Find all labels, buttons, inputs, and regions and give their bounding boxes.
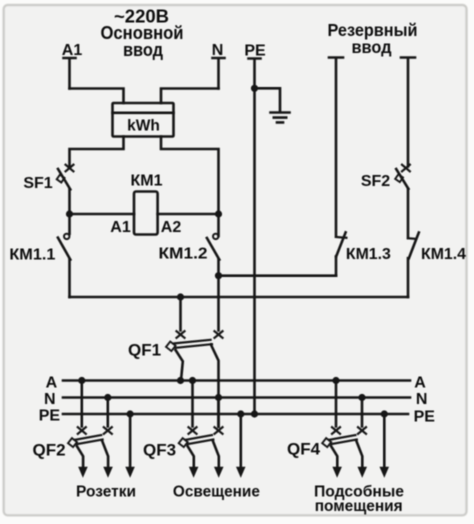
breaker QF4 linkage and blades <box>322 435 362 467</box>
node A bus QF1 <box>177 377 184 384</box>
svg-text:А: А <box>414 375 426 392</box>
svg-text:QF2: QF2 <box>32 441 65 460</box>
breaker QF3 linkage and blades <box>179 435 219 467</box>
svg-text:ввод: ввод <box>352 37 392 57</box>
svg-text:N: N <box>212 42 224 59</box>
breaker QF1 pole N <box>215 276 223 338</box>
svg-text:КМ1.1: КМ1.1 <box>9 247 55 264</box>
node N bus QF4 <box>358 394 365 401</box>
contactor coil KM1 <box>134 192 158 235</box>
wire coil A2 <box>158 213 219 216</box>
switch SF1 <box>57 165 74 214</box>
svg-text:РЕ: РЕ <box>414 409 436 426</box>
terminal PE <box>249 59 261 415</box>
node PE bus tap lighting <box>237 410 244 417</box>
svg-text:SF2: SF2 <box>361 173 390 190</box>
arrow load N <box>214 467 224 478</box>
node A bus QF3 <box>189 377 196 384</box>
node PE ground tap <box>251 85 258 92</box>
breaker QF3 group with load arrows <box>179 377 246 478</box>
svg-text:КМ1.4: КМ1.4 <box>421 246 466 263</box>
wire phase bus KM1.1 to KM1.4 <box>70 296 409 299</box>
breaker QF3 pole L <box>189 381 197 434</box>
node coil A1 tap <box>66 210 73 217</box>
wire to ground electrode <box>255 88 281 111</box>
arrow load L <box>189 467 199 478</box>
svg-text:помещения: помещения <box>315 498 403 515</box>
node coil A2 tap <box>215 210 222 217</box>
node A bus QF4 <box>332 377 339 384</box>
svg-text:N: N <box>44 391 56 408</box>
arrow load L <box>332 467 342 478</box>
wire PE to load <box>129 414 132 467</box>
svg-text:РЕ: РЕ <box>244 43 266 60</box>
breaker QF2 pole L <box>78 381 86 434</box>
svg-text:QF4: QF4 <box>287 440 321 459</box>
wire A1 to kWh input <box>70 89 124 104</box>
wire kWh output to N line <box>161 137 219 237</box>
breaker QF1 pole L <box>177 297 185 338</box>
svg-text:N: N <box>416 391 428 408</box>
terminal reserve L (backup input) <box>329 58 343 237</box>
wire PE to load <box>240 414 243 467</box>
contact KM1.2 <box>207 234 219 276</box>
node N bus QF1 <box>215 394 222 401</box>
contact KM1.3 <box>336 232 346 275</box>
node N link <box>215 272 222 279</box>
arrow load N <box>103 467 113 478</box>
arrow load PE <box>380 467 390 478</box>
terminal A1 (main input phase) <box>64 58 76 89</box>
terminal N (main input neutral) <box>213 58 225 89</box>
arrow load L <box>78 467 88 478</box>
svg-text:QF1: QF1 <box>128 341 161 360</box>
node PE bus main <box>251 410 258 417</box>
switch SF2 <box>395 165 410 238</box>
svg-text:РЕ: РЕ <box>39 408 61 425</box>
svg-text:kWh: kWh <box>127 118 160 135</box>
wire N link KM1.2 to KM1.3 <box>219 274 337 277</box>
svg-text:А: А <box>46 375 58 392</box>
svg-text:ввод: ввод <box>123 39 163 60</box>
breaker QF4 pole N <box>358 398 366 434</box>
svg-text:Розетки: Розетки <box>76 484 136 501</box>
svg-text:А1: А1 <box>62 42 83 59</box>
arrow load PE <box>236 467 246 478</box>
breaker QF4 group with load arrows <box>322 377 389 478</box>
terminal reserve N (backup input) <box>401 58 415 167</box>
svg-text:А2: А2 <box>161 219 182 236</box>
node PE bus tap utility <box>381 410 388 417</box>
arrow load N <box>358 467 368 478</box>
contact KM1.1 <box>58 214 70 297</box>
node N bus QF2 <box>104 394 111 401</box>
svg-text:А1: А1 <box>110 219 131 236</box>
bus A <box>63 379 410 382</box>
breaker QF1 linkage and blades <box>166 340 218 427</box>
breaker QF2 linkage and blades <box>68 435 108 467</box>
node A bus QF2 <box>78 377 85 384</box>
breaker QF4 pole L <box>332 381 340 434</box>
svg-text:КМ1: КМ1 <box>131 173 163 190</box>
wire coil A1 <box>70 213 135 216</box>
contact KM1.4 <box>408 233 419 298</box>
breaker QF3 pole N <box>215 398 223 434</box>
svg-text:КМ1.3: КМ1.3 <box>346 246 391 263</box>
node PE bus tap <box>127 410 134 417</box>
svg-text:QF3: QF3 <box>143 441 176 460</box>
ground <box>271 113 290 123</box>
wire PE to load <box>383 414 386 467</box>
svg-text:КМ1.2: КМ1.2 <box>159 246 208 263</box>
wire kWh output to SF1 <box>70 137 124 167</box>
bus N <box>63 396 410 399</box>
kWh meter M1 body <box>113 103 174 137</box>
svg-text:Освещение: Освещение <box>173 484 260 501</box>
bus PE <box>63 413 408 416</box>
breaker QF2 pole N <box>104 398 112 434</box>
wire N to kWh input <box>161 89 219 104</box>
arrow load PE <box>125 467 135 478</box>
svg-text:SF1: SF1 <box>23 175 52 192</box>
breaker QF2 group with load arrows <box>68 377 135 478</box>
node QF1 phase tap <box>177 293 184 300</box>
